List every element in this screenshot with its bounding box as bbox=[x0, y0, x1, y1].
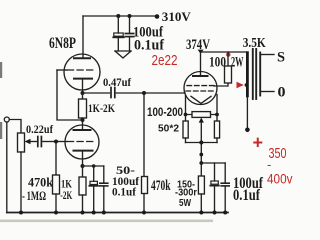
resistor R4 470k grid leak V3 bbox=[142, 93, 148, 213]
node V2 cathode junction bbox=[81, 164, 85, 168]
resistor R8 150-300r 5W bbox=[198, 176, 204, 213]
capacitor C1 lower lead bbox=[117, 38, 119, 51]
capacitor C5 50-100uf bbox=[89, 166, 98, 213]
wire ground rail bbox=[7, 212, 228, 214]
tube V2 envelope bbox=[65, 125, 99, 159]
svg-text:0.1uf: 0.1uf bbox=[233, 187, 261, 204]
wire V1 cathode down bbox=[82, 79, 84, 93]
resistor R3 1K-2K cathode bbox=[79, 166, 86, 213]
node junction dot V2 grid bbox=[54, 140, 58, 144]
svg-text:470k: 470k bbox=[151, 178, 171, 194]
wire rail to V1 anode bbox=[82, 16, 84, 58]
node 310V terminal dot bbox=[155, 14, 160, 19]
svg-text:-2K: -2K bbox=[60, 188, 72, 202]
tube V2 anode plate bbox=[74, 129, 91, 131]
node rail dot 150r bbox=[199, 211, 203, 215]
potentiometer RV2 hum balance body bbox=[192, 112, 211, 118]
svg-text:2e22: 2e22 bbox=[152, 52, 178, 69]
capacitor C2 lower lead bbox=[129, 37, 131, 51]
tube V1 anode plate bbox=[74, 57, 90, 59]
resistor R1 470k-1M grid leak bbox=[53, 142, 60, 213]
node rail dot c7 bbox=[213, 211, 217, 215]
wire cathode cap branch bbox=[201, 162, 225, 164]
node dot cathode b bbox=[199, 161, 203, 165]
scan mark left edge lower bbox=[0, 122, 2, 139]
potentiometer RV1 body bbox=[18, 133, 25, 152]
resistor R6 50 left bbox=[183, 115, 188, 143]
capacitor C2 0.1uf lead bbox=[129, 16, 131, 34]
tube V3 anode plate bbox=[193, 75, 208, 77]
wire B+ top rail bbox=[83, 15, 157, 17]
node junction dot grid V3 bbox=[142, 91, 146, 95]
capacitor C1 100uf plates bbox=[113, 33, 123, 37]
node junction dot C5 bbox=[92, 164, 96, 168]
node dot primary bbox=[245, 83, 249, 87]
svg-text:-: - bbox=[267, 157, 271, 172]
node 374V marker bbox=[198, 50, 204, 54]
node dot cathode a bbox=[199, 153, 203, 157]
tube V3 filament bbox=[191, 96, 211, 103]
svg-text:+: + bbox=[253, 133, 264, 153]
capacitor C4 0.22uf plates bbox=[38, 137, 42, 147]
svg-text:1K-2K: 1K-2K bbox=[88, 101, 116, 115]
wire C4 to V2 grid bbox=[43, 141, 56, 143]
svg-text:374V: 374V bbox=[186, 37, 210, 53]
wire V2 cathode down bbox=[82, 151, 84, 166]
wire screen lead bbox=[214, 83, 228, 86]
transformer T1 primary bar bbox=[246, 51, 249, 97]
svg-text:310V: 310V bbox=[162, 9, 192, 24]
wire filament top bus bbox=[186, 114, 218, 116]
node rail dot c6 bbox=[102, 211, 106, 215]
scan mark left edge upper bbox=[0, 62, 2, 78]
wire input ground side bbox=[6, 122, 8, 213]
tube V3 screen grid dashed bbox=[187, 85, 214, 87]
node cathode mid dot bbox=[199, 141, 203, 145]
wire V3 anode up bbox=[200, 52, 202, 76]
node rail dot 1k2k bbox=[81, 211, 85, 215]
tube V3 control grid dashed bbox=[186, 90, 214, 92]
wire filament lead right bbox=[216, 95, 218, 115]
svg-text:0.47uf: 0.47uf bbox=[103, 75, 132, 89]
scan smudge bottom bbox=[0, 220, 213, 223]
svg-text:0.22uf: 0.22uf bbox=[26, 122, 54, 136]
ground symbol PSU bbox=[115, 51, 131, 58]
node rail dot 470k bbox=[54, 211, 58, 215]
svg-text:100: 100 bbox=[209, 55, 226, 71]
wire filament bottom bus bbox=[186, 142, 218, 144]
capacitor C8 0.1uf bbox=[221, 163, 229, 213]
tube V2 grid dashed bbox=[56, 141, 95, 143]
node junction dot rail C2 bbox=[128, 14, 132, 18]
wire V2 anode up bbox=[82, 125, 84, 130]
wire anode to transformer bbox=[201, 51, 247, 53]
tube V1 grid dashed bbox=[57, 69, 95, 71]
wire secondary tap 0 bbox=[260, 91, 274, 93]
tube V1 cathode plate bbox=[74, 78, 92, 80]
capacitor C6 0.1uf bbox=[100, 166, 108, 213]
resistor R7 50 right bbox=[214, 115, 219, 143]
node rail dot pot bbox=[19, 211, 23, 215]
svg-text:6N8P: 6N8P bbox=[49, 35, 76, 52]
node filament dot left bbox=[184, 113, 188, 117]
capacitor C7 100uf bbox=[210, 163, 219, 213]
node SRPP output junction bbox=[81, 91, 85, 95]
node supply terminal dot bbox=[245, 128, 250, 133]
node junction dot rail C1 bbox=[116, 14, 120, 18]
wire cathode V3 down bbox=[200, 143, 202, 177]
wire input to pot bbox=[9, 120, 21, 134]
potentiometer RV1 wiper arrow bbox=[25, 139, 38, 144]
node rail dot c8 bbox=[223, 211, 227, 215]
capacitor C3 0.47uf plates bbox=[111, 88, 115, 98]
svg-text:0.1uf: 0.1uf bbox=[112, 185, 137, 199]
resistor R2 1K-2K SRPP bbox=[79, 93, 87, 125]
svg-text:2W: 2W bbox=[231, 55, 244, 71]
transformer T1 secondary bar bbox=[259, 53, 261, 96]
tube V3 envelope 2E22 bbox=[184, 72, 217, 105]
node filament dot right bbox=[215, 113, 219, 117]
tube V2 cathode plate bbox=[74, 150, 93, 152]
svg-text:S: S bbox=[277, 50, 285, 66]
wire C3 to grid V3 bbox=[116, 92, 185, 94]
node red tap dot bbox=[226, 52, 230, 56]
svg-text:400v: 400v bbox=[267, 172, 293, 187]
svg-text:3.5K: 3.5K bbox=[243, 36, 266, 51]
wire secondary tap 8 bbox=[260, 54, 274, 56]
svg-text:- 1MΩ: - 1MΩ bbox=[22, 189, 46, 203]
red phase arrow bbox=[237, 82, 244, 88]
node rail dot c5 bbox=[92, 211, 96, 215]
svg-text:100-200: 100-200 bbox=[147, 107, 183, 119]
wire filament lead left bbox=[185, 96, 187, 115]
capacitor C2 0.1uf plates bbox=[125, 34, 133, 37]
svg-text:50*2: 50*2 bbox=[158, 123, 179, 135]
tube V1 envelope bbox=[64, 54, 100, 90]
input terminal circle bbox=[4, 117, 9, 122]
wire pot bottom to ground bbox=[20, 152, 22, 213]
transformer T1 core bars bbox=[253, 49, 256, 99]
capacitor C3 0.47uf wire bbox=[83, 92, 110, 94]
node junction dot mid SRPP bbox=[81, 118, 85, 122]
resistor R5 100 2W screen bbox=[225, 52, 232, 83]
wire primary bottom lead bbox=[246, 97, 248, 130]
node rail dot 470k right bbox=[142, 211, 146, 215]
wire cathode bus V2 bbox=[83, 165, 104, 167]
capacitor C1 100uf lead bbox=[117, 16, 119, 33]
wire grid return left bbox=[57, 70, 83, 120]
potentiometer RV2 wiper arrow bbox=[199, 118, 204, 143]
svg-text:0: 0 bbox=[278, 85, 286, 101]
svg-text:5W: 5W bbox=[179, 197, 191, 209]
svg-text:470k: 470k bbox=[28, 176, 53, 190]
